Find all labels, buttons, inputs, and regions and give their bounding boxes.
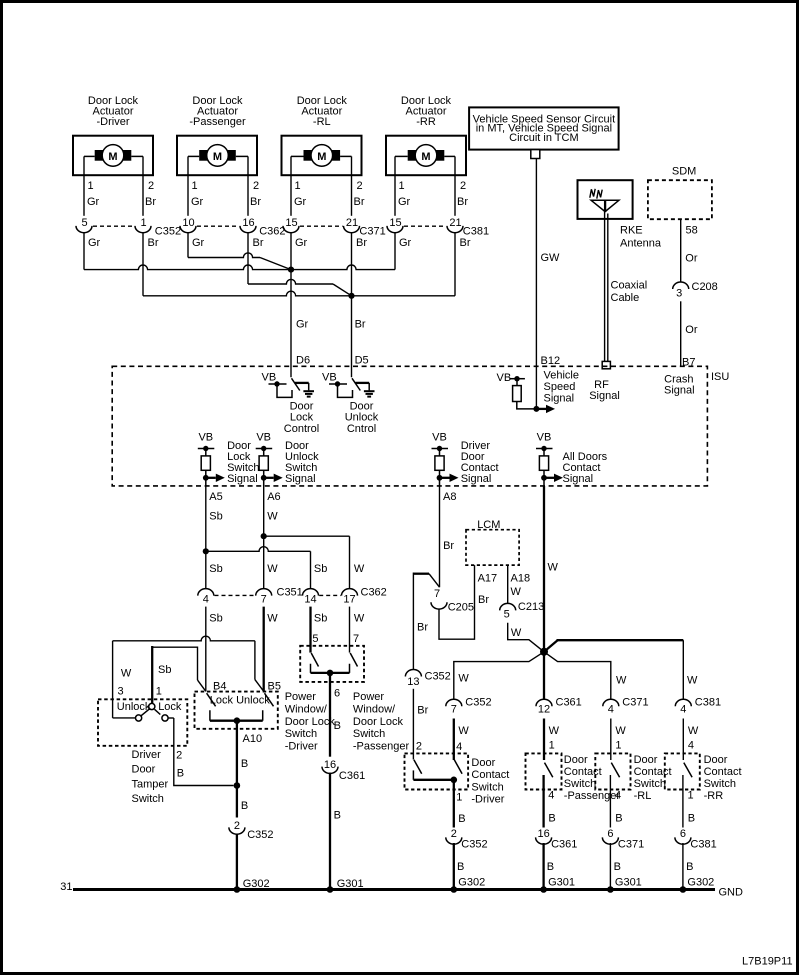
svg-text:4: 4 bbox=[615, 790, 621, 802]
wire passenger Br branch bbox=[247, 233, 249, 285]
connector C381 pins 15/21 bbox=[387, 217, 489, 249]
svg-text:W: W bbox=[688, 725, 699, 737]
svg-text:Switch: Switch bbox=[285, 728, 317, 740]
svg-text:B: B bbox=[688, 812, 695, 824]
switch blade -Passenger bbox=[545, 763, 553, 778]
svg-text:4: 4 bbox=[203, 594, 209, 606]
switch blade pin7 bbox=[350, 653, 357, 667]
svg-text:L7B19P11: L7B19P11 bbox=[742, 956, 793, 968]
svg-text:4: 4 bbox=[608, 703, 614, 715]
svg-text:Gr: Gr bbox=[191, 196, 204, 208]
wire Br bus (unlock) y=295.8 bbox=[143, 291, 455, 296]
svg-text:W: W bbox=[687, 675, 698, 687]
wire Or crash signal B7 lower bbox=[680, 301, 682, 366]
svg-text:C361: C361 bbox=[339, 770, 365, 782]
svg-text:1: 1 bbox=[688, 790, 694, 802]
svg-text:7: 7 bbox=[261, 594, 267, 606]
svg-text:Br: Br bbox=[417, 705, 428, 717]
svg-text:D6: D6 bbox=[296, 355, 310, 367]
svg-text:VB: VB bbox=[262, 372, 277, 384]
svg-text:Vehicle: Vehicle bbox=[544, 370, 579, 382]
resistor VB pull-up A9 all doors contact signal bbox=[536, 432, 563, 486]
svg-text:G301: G301 bbox=[615, 877, 642, 889]
svg-text:A18: A18 bbox=[511, 572, 531, 584]
svg-text:B: B bbox=[615, 812, 622, 824]
svg-text:C361: C361 bbox=[556, 697, 582, 709]
svg-text:C351: C351 bbox=[277, 587, 303, 599]
wire X to RL contact bbox=[544, 652, 611, 700]
svg-text:W: W bbox=[267, 613, 278, 625]
connector C381 pin 4 bbox=[675, 697, 721, 716]
connector C361 pin 12 bbox=[536, 697, 582, 716]
svg-text:Gr: Gr bbox=[192, 237, 205, 249]
svg-text:2: 2 bbox=[234, 820, 240, 832]
svg-text:Door: Door bbox=[564, 754, 588, 766]
svg-text:Door: Door bbox=[350, 400, 374, 412]
svg-text:2: 2 bbox=[253, 180, 259, 192]
svg-text:M: M bbox=[108, 151, 117, 163]
svg-text:Sb: Sb bbox=[158, 664, 171, 676]
connector C361 pin 16 bottom bbox=[536, 828, 578, 851]
svg-text:Door Lock: Door Lock bbox=[285, 716, 336, 728]
svg-text:-Driver: -Driver bbox=[285, 741, 318, 753]
connector C205 pin 7 bbox=[431, 588, 474, 613]
svg-text:W: W bbox=[548, 562, 559, 574]
svg-text:Switch: Switch bbox=[704, 778, 736, 790]
svg-text:1: 1 bbox=[399, 180, 405, 192]
svg-text:B: B bbox=[457, 861, 464, 873]
svg-text:15: 15 bbox=[389, 217, 401, 229]
svg-text:Switch: Switch bbox=[471, 781, 503, 793]
svg-text:Lock: Lock bbox=[290, 412, 314, 424]
svg-text:C352: C352 bbox=[247, 829, 273, 841]
svg-text:Sb: Sb bbox=[314, 563, 327, 575]
svg-text:Switch: Switch bbox=[564, 778, 596, 790]
wire Br pin13 to contact switch pin2 bbox=[412, 689, 414, 760]
svg-text:A6: A6 bbox=[267, 491, 280, 503]
svg-text:16: 16 bbox=[242, 217, 254, 229]
driver door tamper switch bbox=[98, 664, 187, 746]
svg-text:1: 1 bbox=[615, 740, 621, 752]
svg-text:Lock: Lock bbox=[158, 701, 182, 713]
svg-text:6: 6 bbox=[680, 828, 686, 840]
wire coaxial cable (RF) bbox=[604, 212, 606, 367]
door contact switch -RL box bbox=[595, 753, 630, 789]
wire pin2 -Driver bbox=[142, 156, 144, 215]
door unlock control driver symbol (D5) bbox=[322, 372, 379, 435]
svg-text:Power: Power bbox=[353, 691, 385, 703]
door lock actuator M2 -Passenger bbox=[177, 95, 257, 175]
svg-text:Driver: Driver bbox=[132, 749, 162, 761]
wire A6 branch to C362 pin17 bbox=[264, 535, 350, 537]
wire A8 branch to door contact switch driver bbox=[429, 574, 440, 588]
ground junction x=236.9 bbox=[234, 886, 241, 893]
svg-text:Speed: Speed bbox=[544, 381, 576, 393]
svg-text:Power: Power bbox=[285, 691, 317, 703]
wire X to passenger contact (thick) bbox=[543, 652, 545, 700]
svg-text:Gr: Gr bbox=[88, 237, 101, 249]
svg-text:Signal: Signal bbox=[589, 390, 620, 402]
door lock control driver symbol (D6) bbox=[262, 372, 320, 435]
wire A9 W to X junction bbox=[543, 486, 545, 652]
connector C362 pins 10/16 bbox=[180, 217, 285, 249]
svg-text:B: B bbox=[334, 810, 341, 822]
svg-text:C381: C381 bbox=[463, 226, 489, 238]
svg-text:W: W bbox=[458, 673, 469, 685]
svg-text:W: W bbox=[267, 563, 278, 575]
svg-text:Door: Door bbox=[634, 754, 658, 766]
svg-text:5: 5 bbox=[81, 217, 87, 229]
junction A5 branch bbox=[203, 548, 209, 554]
svg-text:A5: A5 bbox=[209, 491, 222, 503]
wire C213 W to X junction bbox=[508, 623, 544, 652]
svg-text:Circuit in TCM: Circuit in TCM bbox=[509, 132, 578, 144]
svg-text:-RL: -RL bbox=[313, 116, 331, 128]
svg-text:B: B bbox=[241, 800, 248, 812]
svg-text:Lock Unlock: Lock Unlock bbox=[210, 694, 270, 706]
svg-text:16: 16 bbox=[324, 759, 336, 771]
svg-text:G301: G301 bbox=[548, 877, 575, 889]
svg-text:B: B bbox=[614, 861, 621, 873]
svg-text:W: W bbox=[267, 511, 278, 523]
svg-text:Gr: Gr bbox=[294, 196, 307, 208]
svg-text:B: B bbox=[177, 768, 184, 780]
svg-text:C361: C361 bbox=[551, 838, 577, 850]
svg-text:1: 1 bbox=[549, 740, 555, 752]
wire Sb pin14 to passenger switch bbox=[309, 607, 311, 653]
svg-text:C371: C371 bbox=[359, 226, 385, 238]
svg-text:21: 21 bbox=[346, 217, 358, 229]
svg-text:GND: GND bbox=[719, 886, 744, 898]
wire C205 to LCM A17 bbox=[439, 565, 475, 639]
X junction all doors bbox=[540, 648, 548, 656]
connector C208 pin 3 bbox=[673, 281, 718, 300]
wire contact output -RR bbox=[682, 775, 684, 890]
svg-text:10: 10 bbox=[182, 217, 194, 229]
wire unlock link W (tamper pin3 to B5) bbox=[113, 636, 255, 641]
svg-text:14: 14 bbox=[304, 594, 316, 606]
svg-text:7: 7 bbox=[451, 703, 457, 715]
svg-text:C381: C381 bbox=[690, 838, 716, 850]
svg-text:C362: C362 bbox=[361, 587, 387, 599]
switch blade driver contact W bbox=[454, 760, 462, 774]
power window door lock switch passenger box bbox=[300, 646, 364, 682]
svg-text:-Driver: -Driver bbox=[471, 794, 504, 806]
svg-text:Gr: Gr bbox=[399, 237, 412, 249]
svg-text:W: W bbox=[511, 627, 522, 639]
svg-text:12: 12 bbox=[538, 703, 550, 715]
door lock actuator M4 -RR bbox=[386, 95, 466, 175]
svg-text:3: 3 bbox=[676, 288, 682, 300]
svg-text:2: 2 bbox=[460, 180, 466, 192]
svg-text:Sb: Sb bbox=[209, 511, 222, 523]
svg-text:A8: A8 bbox=[443, 491, 456, 503]
vehicle speed sensor circuit box bbox=[469, 107, 618, 158]
connector C381 pin 6 bottom bbox=[675, 828, 717, 851]
junction A6 branch bbox=[261, 533, 267, 539]
svg-text:VB: VB bbox=[322, 372, 337, 384]
svg-text:RKE: RKE bbox=[620, 224, 643, 236]
svg-text:D5: D5 bbox=[355, 355, 369, 367]
svg-text:VB: VB bbox=[256, 432, 271, 444]
svg-text:21: 21 bbox=[449, 217, 461, 229]
resistor VB pull-up A6 door unlock switch signal bbox=[256, 432, 283, 486]
svg-text:1: 1 bbox=[456, 792, 462, 804]
svg-text:C352: C352 bbox=[461, 838, 487, 850]
connector C362 pins 14/17 bbox=[303, 587, 387, 606]
svg-text:M: M bbox=[421, 151, 430, 163]
svg-text:-Driver: -Driver bbox=[97, 116, 130, 128]
wire A8 Br below ISU bbox=[439, 486, 441, 587]
wire pin2 -RR bbox=[454, 156, 456, 215]
wire driver Br vertical bbox=[142, 233, 144, 296]
connector C352 pins 5/1 bbox=[76, 217, 181, 249]
svg-text:C381: C381 bbox=[695, 697, 721, 709]
wire pin2 -Passenger bbox=[247, 156, 249, 215]
svg-text:Br: Br bbox=[356, 237, 367, 249]
wire RR Gr vertical bbox=[394, 233, 396, 270]
door lock actuator M1 -Driver bbox=[73, 95, 153, 175]
switch blade B4 bbox=[207, 693, 216, 706]
wire A5 branch to C351 pin14 bbox=[206, 547, 311, 552]
svg-text:4: 4 bbox=[688, 740, 694, 752]
svg-text:Or: Or bbox=[685, 253, 698, 265]
svg-text:VB: VB bbox=[432, 432, 447, 444]
wire W C352 to contact switch bbox=[453, 719, 455, 761]
svg-text:Door Lock: Door Lock bbox=[353, 716, 404, 728]
junction A10/tamper B bbox=[234, 782, 241, 789]
svg-text:W: W bbox=[458, 725, 469, 737]
svg-text:7: 7 bbox=[434, 588, 440, 600]
svg-text:Signal: Signal bbox=[285, 473, 316, 485]
wire contact output -RL bbox=[609, 775, 611, 890]
svg-text:Door: Door bbox=[471, 757, 495, 769]
svg-text:1: 1 bbox=[156, 686, 162, 698]
svg-text:1: 1 bbox=[295, 180, 301, 192]
svg-text:Signal: Signal bbox=[544, 392, 575, 404]
svg-text:-Passenger: -Passenger bbox=[353, 741, 410, 753]
RF coax connector at ISU bbox=[602, 361, 610, 368]
svg-text:Crash: Crash bbox=[664, 373, 693, 385]
switch blade pin5 bbox=[311, 653, 318, 667]
svg-text:Control: Control bbox=[284, 423, 319, 435]
svg-text:2: 2 bbox=[416, 741, 422, 753]
connector C351 pins 4/7 bbox=[198, 587, 303, 606]
ground junction x=610.4 bbox=[607, 886, 614, 893]
svg-text:Br: Br bbox=[443, 540, 454, 552]
ground junction x=682.9 bbox=[680, 886, 687, 893]
svg-text:16: 16 bbox=[537, 828, 549, 840]
svg-text:M: M bbox=[213, 151, 222, 163]
svg-text:2: 2 bbox=[357, 180, 363, 192]
svg-text:Coaxial: Coaxial bbox=[611, 279, 648, 291]
svg-text:6: 6 bbox=[607, 828, 613, 840]
wire D6 Gr to ISU bbox=[290, 233, 292, 378]
svg-text:C208: C208 bbox=[692, 281, 718, 293]
wire pin1 -RL bbox=[290, 156, 292, 215]
svg-text:Sb: Sb bbox=[314, 613, 327, 625]
svg-text:B: B bbox=[686, 861, 693, 873]
svg-text:Br: Br bbox=[250, 196, 261, 208]
svg-text:B: B bbox=[241, 758, 248, 770]
svg-text:C352: C352 bbox=[425, 670, 451, 682]
wire A5 Sb below ISU bbox=[205, 486, 207, 589]
svg-text:Gr: Gr bbox=[87, 196, 100, 208]
svg-text:Antenna: Antenna bbox=[620, 238, 662, 250]
svg-text:W: W bbox=[354, 613, 365, 625]
wire passenger Gr branch bbox=[187, 233, 189, 258]
bracket driver contact bbox=[412, 770, 414, 779]
svg-text:Br: Br bbox=[145, 196, 156, 208]
svg-text:Door: Door bbox=[132, 764, 156, 776]
svg-text:Switch: Switch bbox=[634, 778, 666, 790]
svg-text:Signal: Signal bbox=[664, 385, 695, 397]
wire driver contact output 1 B bbox=[453, 780, 455, 890]
svg-text:Sb: Sb bbox=[209, 563, 222, 575]
connector C352 pin 2 (A10 wire) bbox=[229, 818, 274, 841]
svg-text:Gr: Gr bbox=[295, 237, 308, 249]
svg-text:7: 7 bbox=[353, 633, 359, 645]
svg-text:Switch: Switch bbox=[353, 728, 385, 740]
svg-text:W: W bbox=[121, 667, 132, 679]
wire pin1 -RR bbox=[394, 156, 396, 215]
svg-text:W: W bbox=[615, 725, 626, 737]
door contact switch -RR box bbox=[665, 753, 700, 789]
svg-text:Contact: Contact bbox=[471, 769, 509, 781]
junction Br bus / D5 bbox=[348, 293, 354, 299]
svg-text:B: B bbox=[334, 720, 341, 732]
svg-text:C213: C213 bbox=[518, 601, 544, 613]
svg-text:M: M bbox=[317, 151, 326, 163]
svg-text:-RR: -RR bbox=[416, 116, 436, 128]
svg-text:C362: C362 bbox=[259, 226, 285, 238]
wire driver Gr vertical bbox=[83, 233, 85, 270]
svg-text:Signal: Signal bbox=[461, 473, 492, 485]
svg-text:B: B bbox=[458, 813, 465, 825]
connector C213 pin 5 bbox=[500, 601, 544, 620]
svg-text:-RL: -RL bbox=[634, 790, 652, 802]
svg-text:Door: Door bbox=[290, 400, 314, 412]
wire W C381 to contact switch bbox=[682, 719, 684, 761]
svg-text:GW: GW bbox=[541, 252, 561, 264]
svg-text:VB: VB bbox=[497, 372, 512, 384]
svg-text:C352: C352 bbox=[155, 226, 181, 238]
svg-text:17: 17 bbox=[343, 594, 355, 606]
svg-text:Signal: Signal bbox=[563, 473, 594, 485]
svg-text:Br: Br bbox=[457, 196, 468, 208]
switch common bracket driver bbox=[210, 710, 263, 721]
wire D5 Br to ISU bbox=[351, 233, 353, 378]
power window door lock switch driver box bbox=[195, 692, 278, 729]
ground junction x=543.6 bbox=[540, 886, 547, 893]
svg-text:Br: Br bbox=[478, 594, 489, 606]
svg-text:Door: Door bbox=[704, 754, 728, 766]
svg-text:ISU: ISU bbox=[711, 371, 729, 383]
connector C352 pin 7 bbox=[446, 697, 492, 716]
svg-text:Cable: Cable bbox=[611, 292, 640, 304]
resistor VB pull-up B12 bbox=[497, 370, 579, 414]
SDM box bbox=[648, 166, 712, 220]
wire W pin7 to B5 bbox=[263, 607, 265, 692]
wire contact output -Passenger bbox=[542, 775, 544, 890]
svg-text:Window/: Window/ bbox=[285, 703, 328, 715]
svg-text:-RR: -RR bbox=[704, 790, 724, 802]
svg-text:C371: C371 bbox=[618, 838, 644, 850]
connector C371 pin 6 bottom bbox=[602, 828, 644, 851]
svg-text:Sb: Sb bbox=[209, 613, 222, 625]
svg-text:31: 31 bbox=[60, 881, 72, 893]
svg-text:Cntrol: Cntrol bbox=[347, 423, 376, 435]
svg-text:6: 6 bbox=[334, 688, 340, 700]
wire Sb pin4 to B4 bbox=[205, 607, 207, 692]
svg-text:Contact: Contact bbox=[634, 766, 672, 778]
svg-text:B12: B12 bbox=[541, 355, 561, 367]
connector C352 pin 13 bbox=[405, 670, 450, 689]
wire Gr bus (lock) y=269.6 bbox=[84, 265, 395, 270]
door contact switch driver box bbox=[405, 753, 469, 789]
svg-text:Gr: Gr bbox=[398, 196, 411, 208]
switch common bracket passenger bbox=[311, 664, 350, 673]
ground bus wire 31 / GND bbox=[73, 888, 715, 891]
svg-text:-Passenger: -Passenger bbox=[564, 790, 621, 802]
svg-text:2: 2 bbox=[176, 750, 182, 762]
ground junction x=453.8 bbox=[451, 886, 458, 893]
svg-text:B: B bbox=[547, 861, 554, 873]
connector C371 pins 15/21 bbox=[283, 217, 386, 249]
door contact switch -Passenger box bbox=[526, 753, 562, 789]
switch blade -RR bbox=[684, 763, 692, 778]
wire W C371 to contact switch bbox=[610, 719, 612, 761]
switch blade B5 bbox=[265, 693, 274, 706]
wire pivot link Sb (tamper pin1 to B4) bbox=[152, 647, 197, 680]
svg-text:4: 4 bbox=[548, 790, 554, 802]
svg-text:A17: A17 bbox=[478, 572, 498, 584]
svg-text:Or: Or bbox=[685, 324, 698, 336]
switch blade -RL bbox=[611, 763, 619, 778]
svg-text:W: W bbox=[354, 563, 365, 575]
svg-text:2: 2 bbox=[148, 180, 154, 192]
svg-text:Tamper: Tamper bbox=[132, 778, 169, 790]
wire A10 B output bbox=[236, 721, 238, 890]
connector C371 pin 4 bbox=[603, 697, 649, 716]
svg-text:3: 3 bbox=[118, 686, 124, 698]
svg-text:Br: Br bbox=[354, 196, 365, 208]
svg-text:58: 58 bbox=[686, 224, 698, 236]
door lock actuator M3 -RL bbox=[282, 95, 362, 175]
wire GW vehicle speed signal B12 bbox=[535, 159, 537, 409]
svg-text:Gr: Gr bbox=[296, 319, 309, 331]
svg-text:Br: Br bbox=[253, 237, 264, 249]
svg-text:1: 1 bbox=[88, 180, 94, 192]
svg-text:C352: C352 bbox=[465, 697, 491, 709]
wire W C361 to contact switch bbox=[543, 719, 545, 761]
svg-text:5: 5 bbox=[312, 633, 318, 645]
ISU module dashed box bbox=[112, 366, 729, 486]
wire Or crash signal B7 upper bbox=[680, 219, 682, 282]
connector C361 pin 16 (passenger lock wire) bbox=[322, 757, 365, 782]
svg-text:W: W bbox=[549, 725, 560, 737]
svg-text:Contact: Contact bbox=[704, 766, 742, 778]
svg-text:5: 5 bbox=[504, 608, 510, 620]
svg-text:1: 1 bbox=[192, 180, 198, 192]
svg-text:2: 2 bbox=[451, 828, 457, 840]
wire X to driver contact bbox=[454, 652, 544, 700]
wire passenger switch output 6 B bbox=[329, 673, 331, 890]
svg-text:VB: VB bbox=[198, 432, 213, 444]
svg-text:Br: Br bbox=[148, 237, 159, 249]
svg-text:B: B bbox=[548, 812, 555, 824]
wire A6 W below ISU bbox=[263, 486, 265, 589]
